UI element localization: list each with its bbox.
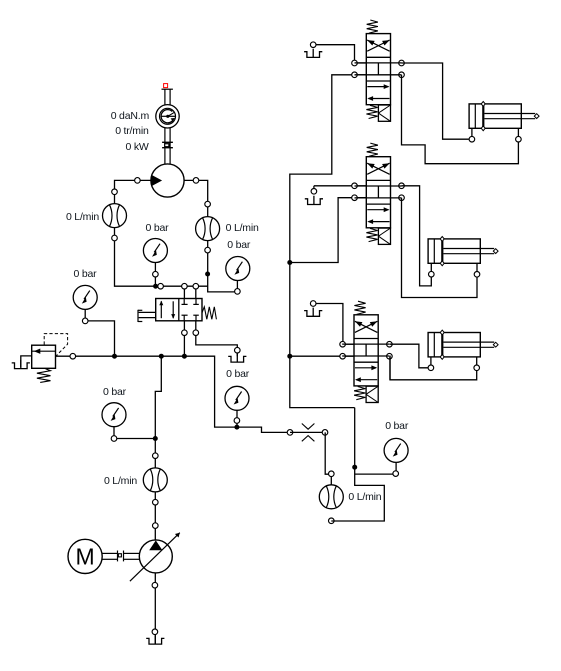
directional valve DV1 bbox=[355, 20, 402, 121]
node valve3 AR bbox=[387, 341, 393, 347]
wire main bus bbox=[56, 356, 291, 432]
node valve1 TL bbox=[352, 60, 358, 66]
node valve1 BR bbox=[399, 72, 405, 78]
node gauge G2 stub bbox=[111, 436, 117, 442]
wire cyl3 cap stub bbox=[430, 357, 432, 368]
node above tank T8 bbox=[152, 629, 158, 635]
label 0 bar G6 bbox=[385, 420, 408, 432]
tank T4 bbox=[228, 353, 246, 362]
node valve2 BR bbox=[399, 195, 405, 201]
node valve top-left bbox=[182, 283, 188, 289]
junction right riser bbox=[205, 272, 210, 277]
label 0 bar G3 bbox=[146, 222, 169, 234]
node pump2 top bbox=[153, 523, 159, 529]
flow meter FM1 bbox=[103, 204, 127, 228]
flow meter FM2 bbox=[196, 217, 220, 241]
wire pump2 to tank bbox=[154, 573, 156, 644]
label 0 bar G2 bbox=[103, 386, 126, 398]
node valve bottom-right bbox=[193, 330, 199, 336]
node pump right bbox=[193, 178, 199, 184]
plug X1 bbox=[290, 424, 325, 442]
wire valve1 A to cyl1 bbox=[402, 63, 469, 139]
pressure gauge G4 (right) bbox=[226, 257, 250, 281]
node gauge G4 stub bbox=[235, 289, 241, 295]
wire valve3 A to cyl3 bbox=[389, 344, 428, 368]
node P-line right of plug bbox=[322, 430, 328, 436]
sensor mount (red square) bbox=[162, 84, 173, 90]
pressure gauge G6 bbox=[384, 438, 408, 474]
node bus A end bbox=[158, 283, 164, 289]
wire cyl1 cap stub bbox=[471, 128, 473, 139]
flow meter FM4 bbox=[319, 485, 343, 509]
node valve bottom-left bbox=[182, 330, 188, 336]
label 0 L/min FM3 bbox=[104, 475, 137, 487]
directional valve DV3 bbox=[342, 301, 389, 402]
node valve3 TL bbox=[340, 341, 346, 347]
pressure gauge G2 bbox=[102, 403, 155, 439]
cylinder C1 bbox=[469, 102, 539, 131]
node FM3 bottom bbox=[153, 499, 159, 505]
wire pump right port bbox=[184, 180, 237, 292]
torque/speed sensor U1 bbox=[156, 105, 179, 128]
node left riser upper bbox=[112, 189, 118, 195]
node cyl3 cap bbox=[428, 365, 434, 371]
directional valve DV4 2-position bbox=[156, 299, 202, 321]
wire pump left port bbox=[115, 180, 208, 286]
tank T3 bbox=[304, 304, 322, 317]
node gauge G5 stub bbox=[234, 418, 240, 424]
node FM4 top bbox=[329, 471, 335, 477]
node cyl2 cap bbox=[429, 271, 435, 277]
wire valve2 B to cyl2 rod bbox=[402, 198, 478, 298]
node tank T1 bbox=[310, 42, 316, 48]
pressure gauge G5 bbox=[225, 386, 249, 427]
node pump left bbox=[135, 178, 141, 184]
svg-text:M: M bbox=[76, 544, 95, 570]
node tank T2 bbox=[311, 189, 317, 195]
node right riser lower bbox=[205, 247, 211, 253]
node P-line left of plug bbox=[287, 430, 293, 436]
node valve top-right bbox=[193, 283, 199, 289]
junction bus x161 bbox=[159, 354, 164, 359]
valve DV4 spring bbox=[202, 307, 216, 320]
wire valve stub top-right bbox=[195, 286, 197, 304]
electric motor M1 bbox=[68, 539, 102, 573]
node left riser lower bbox=[112, 235, 118, 241]
flow meter FM3 bbox=[143, 468, 167, 492]
node valve1 PL bbox=[352, 72, 358, 78]
wire valve3 B to cyl3 rod bbox=[389, 356, 476, 380]
node cyl3 rod bbox=[474, 365, 480, 371]
coupling K1 bbox=[162, 142, 173, 147]
wire valve3 P branch bbox=[290, 355, 343, 357]
node valve2 TL bbox=[352, 183, 358, 189]
node bus left end bbox=[70, 353, 76, 359]
node x155 y455 bbox=[153, 453, 159, 459]
label 0 bar G1 bbox=[74, 268, 97, 280]
junction bus x184 bbox=[182, 354, 187, 359]
node cyl1 rod bbox=[516, 136, 522, 142]
directional valve DV2 bbox=[355, 143, 402, 244]
wire descent to lower pump bbox=[155, 356, 161, 540]
node gauge G3 stub bbox=[153, 271, 159, 277]
wire valve2 port lines bbox=[355, 186, 391, 198]
wire valve3 B vertical bbox=[389, 356, 391, 380]
node tank T3 bbox=[310, 301, 316, 307]
label 0 L/min FM4 bbox=[348, 491, 381, 503]
wire valve1 ports left bbox=[355, 63, 367, 75]
label 0 kW bbox=[125, 141, 148, 153]
tank T7 (relief drain) bbox=[12, 360, 30, 369]
wire valve2 A to cyl2 bbox=[402, 186, 432, 286]
shaft motor-pump bbox=[102, 551, 139, 562]
label 0 bar G5 bbox=[226, 368, 249, 380]
tank T2 bbox=[305, 186, 323, 205]
pressure gauge G1 bbox=[73, 285, 114, 356]
wire tank T1 to valve1 bbox=[316, 45, 355, 60]
wire valve stub bottom-right to tank bbox=[196, 315, 238, 356]
label 0 bar G4 bbox=[227, 239, 250, 251]
node valve3 BR bbox=[387, 353, 393, 359]
relief valve RV1 bbox=[32, 334, 68, 383]
node valve2 AR bbox=[399, 183, 405, 189]
junction header v3 bbox=[287, 354, 292, 359]
junction header v2 bbox=[287, 260, 292, 265]
node valve2 PL bbox=[352, 195, 358, 201]
wire FM4 wrap to riser bbox=[331, 408, 384, 521]
wire valve1 B to cyl1 rod bbox=[402, 75, 519, 164]
junction bus A bbox=[153, 284, 158, 289]
wire shaft lower bbox=[165, 128, 170, 164]
label 0 L/min FM1 bbox=[66, 211, 99, 223]
wire valve2 P branch bbox=[290, 198, 355, 263]
wire valve stub top-left bbox=[183, 286, 185, 304]
cylinder C3 bbox=[428, 330, 498, 359]
pressure gauge G3 (center) bbox=[143, 239, 167, 287]
tank T8 (suction) bbox=[146, 635, 164, 644]
cylinder C2 bbox=[428, 237, 498, 266]
node cyl2 rod bbox=[474, 272, 480, 278]
node FM4 bottom bbox=[329, 518, 335, 524]
wire return header bbox=[290, 75, 355, 408]
node valve1 AR bbox=[399, 60, 405, 66]
node gauge G1 stub bbox=[82, 318, 88, 324]
wire valve stub bottom-left to bus bbox=[183, 315, 185, 356]
wire tank T3 to valve3 bbox=[316, 304, 343, 342]
junction bus x114 bbox=[112, 354, 117, 359]
valve DV4 manual actuator bbox=[138, 310, 156, 322]
wire valve1 port lines through bbox=[366, 63, 390, 75]
label 0 L/min FM2 bbox=[226, 222, 259, 234]
wire valve3 port lines bbox=[343, 344, 379, 356]
node right riser upper bbox=[205, 201, 211, 207]
node valve3 PL bbox=[340, 353, 346, 359]
wire gauge G6 branch bbox=[355, 473, 396, 475]
junction x155 y438 bbox=[153, 436, 158, 441]
junction P-line gauge bbox=[234, 425, 239, 430]
wire tank T2 to valve2 bbox=[314, 185, 366, 187]
node tank T4 stub bbox=[235, 347, 241, 353]
junction riser x354 bbox=[352, 465, 357, 470]
node gauge G6 stub bbox=[393, 471, 399, 477]
wire shaft upper bbox=[165, 89, 170, 105]
wire plug to FM4 bbox=[325, 432, 331, 484]
label 0 tr/min bbox=[115, 125, 148, 137]
node below pump2 bbox=[152, 582, 158, 588]
tank T1 bbox=[304, 45, 322, 58]
variable displacement pump P2 bbox=[130, 533, 180, 582]
node cyl1 cap bbox=[469, 136, 475, 142]
label 0 daN.m bbox=[111, 110, 149, 122]
hydraulic motor/pump P1 bbox=[151, 164, 184, 197]
wire relief valve drain bbox=[21, 356, 32, 367]
